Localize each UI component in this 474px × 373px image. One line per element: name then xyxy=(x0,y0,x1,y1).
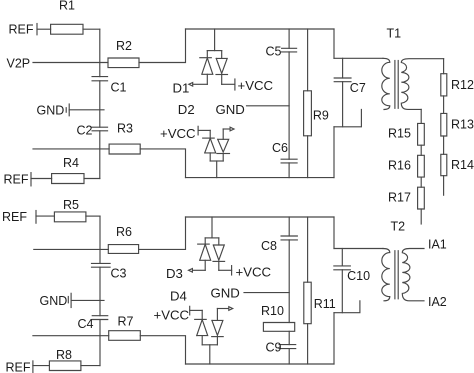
svg-text:R4: R4 xyxy=(63,156,79,170)
svg-text:V2P: V2P xyxy=(7,57,31,71)
svg-text:REF: REF xyxy=(4,173,29,187)
svg-text:REF: REF xyxy=(2,210,27,224)
svg-text:GND: GND xyxy=(37,104,65,118)
svg-text:GND: GND xyxy=(211,285,240,300)
svg-text:C8: C8 xyxy=(261,239,277,253)
svg-text:C2: C2 xyxy=(77,124,93,138)
svg-text:R1: R1 xyxy=(59,0,75,13)
svg-text:D1: D1 xyxy=(173,80,190,95)
svg-text:R3: R3 xyxy=(117,122,133,136)
svg-text:GND: GND xyxy=(40,294,68,308)
svg-text:D2: D2 xyxy=(178,102,195,117)
svg-text:C9: C9 xyxy=(266,341,282,355)
svg-text:GND: GND xyxy=(216,102,245,117)
svg-text:R16: R16 xyxy=(388,159,411,173)
svg-text:+VCC: +VCC xyxy=(236,265,272,280)
svg-text:R15: R15 xyxy=(388,127,411,141)
svg-text:C5: C5 xyxy=(266,45,282,59)
svg-text:R8: R8 xyxy=(56,348,72,362)
svg-text:R17: R17 xyxy=(388,191,411,205)
svg-text:IA1: IA1 xyxy=(428,238,447,252)
svg-text:R7: R7 xyxy=(118,315,134,329)
svg-text:R6: R6 xyxy=(116,225,132,239)
svg-text:R14: R14 xyxy=(451,158,474,172)
svg-text:D4: D4 xyxy=(170,288,187,303)
svg-text:R10: R10 xyxy=(261,304,284,318)
svg-text:+VCC: +VCC xyxy=(160,126,196,141)
svg-text:+VCC: +VCC xyxy=(154,308,190,323)
svg-text:C7: C7 xyxy=(350,81,366,95)
svg-text:REF: REF xyxy=(6,361,31,373)
svg-text:R9: R9 xyxy=(313,109,329,123)
svg-text:R12: R12 xyxy=(451,78,474,92)
svg-text:R11: R11 xyxy=(314,297,336,311)
svg-text:C1: C1 xyxy=(111,81,127,95)
svg-text:C4: C4 xyxy=(78,317,94,331)
svg-text:D3: D3 xyxy=(166,266,183,281)
svg-text:T1: T1 xyxy=(387,27,402,41)
svg-text:IA2: IA2 xyxy=(428,295,447,309)
svg-text:R2: R2 xyxy=(116,39,132,53)
svg-text:C6: C6 xyxy=(272,141,288,155)
svg-text:C10: C10 xyxy=(347,269,370,283)
svg-text:R13: R13 xyxy=(451,118,474,132)
svg-text:C3: C3 xyxy=(111,267,127,281)
svg-text:T2: T2 xyxy=(391,220,406,234)
svg-text:REF: REF xyxy=(9,23,34,37)
svg-text:R5: R5 xyxy=(63,198,79,212)
svg-text:+VCC: +VCC xyxy=(238,78,274,93)
